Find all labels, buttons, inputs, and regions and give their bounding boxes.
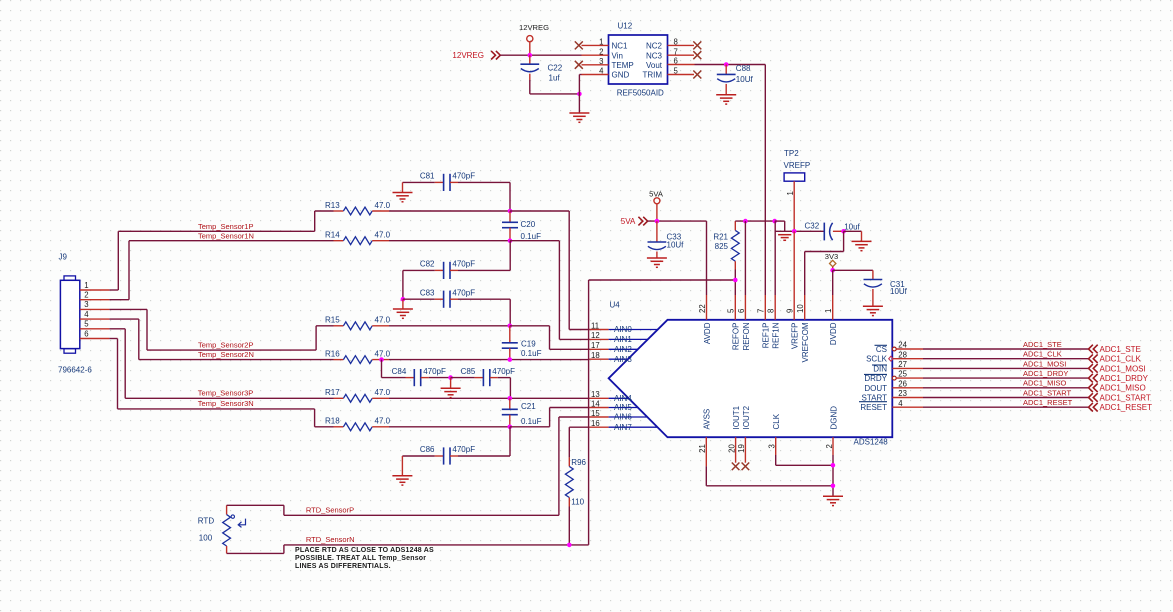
svg-text:C20: C20 — [521, 220, 536, 229]
junction at 12VREG rail / C22 — [528, 53, 533, 58]
svg-text:23: 23 — [898, 389, 907, 398]
svg-text:VREFCOM: VREFCOM — [801, 322, 810, 362]
junction R15/C83/C19 — [508, 324, 513, 329]
IC U12 REF5050AID — [609, 22, 668, 98]
resistor RTD 100 (RTD sensor) — [198, 505, 246, 553]
junction R14/C20/C82 — [508, 238, 513, 243]
port ADC1_STE (off-page connector, right) — [1089, 345, 1141, 354]
wire C86 left to ground — [401, 456, 403, 476]
net label RTD_SensorP — [306, 506, 354, 515]
wire C85 right down to R17 node — [509, 378, 511, 399]
svg-text:AIN6: AIN6 — [614, 413, 632, 422]
svg-text:12VREG: 12VREG — [452, 51, 484, 60]
wire Temp_Sensor3N jog down to R18 — [315, 409, 334, 427]
U4 pin 5 REFOP (top) — [727, 295, 741, 350]
J9 pin 3 — [80, 300, 110, 309]
no-connect X on pin 19 — [742, 463, 750, 471]
svg-text:VREFP: VREFP — [784, 161, 811, 170]
wire J9 pin6 to Temp_Sensor3N — [109, 339, 314, 409]
svg-text:R13: R13 — [325, 201, 340, 210]
svg-text:PLACE RTD AS CLOSE TO ADS1248: PLACE RTD AS CLOSE TO ADS1248 AS — [295, 547, 434, 554]
svg-text:1: 1 — [824, 309, 833, 313]
svg-text:C21: C21 — [521, 402, 536, 411]
wire net ADC1_MOSI — [923, 367, 1088, 369]
svg-text:10: 10 — [796, 304, 805, 313]
junction REFON tap — [743, 219, 748, 224]
port ADC1_CLK (off-page connector, right) — [1089, 354, 1142, 363]
svg-text:2: 2 — [84, 291, 88, 300]
svg-text:ADC1_STE: ADC1_STE — [1023, 340, 1062, 349]
wire CLK to DGND node — [776, 455, 833, 465]
wire J9 pin1 to Temp_Sensor1P — [109, 231, 314, 290]
ground (C31) — [863, 306, 883, 315]
svg-text:6: 6 — [84, 329, 88, 338]
svg-text:47.0: 47.0 — [375, 349, 391, 358]
wire REF rail R21-top to REF0N / REF1N — [735, 220, 774, 222]
wire VREFP pin column — [793, 231, 795, 295]
svg-text:3: 3 — [84, 300, 88, 309]
wire net ADC1_RESET — [923, 406, 1088, 408]
svg-text:ADC1_MOSI: ADC1_MOSI — [1100, 364, 1146, 373]
svg-text:AIN4: AIN4 — [614, 394, 632, 403]
svg-text:REFON: REFON — [742, 322, 751, 350]
svg-text:8: 8 — [767, 309, 776, 313]
svg-text:RTD_SensorP: RTD_SensorP — [306, 506, 354, 515]
svg-text:5: 5 — [84, 320, 89, 329]
svg-text:Vout: Vout — [646, 61, 663, 70]
junction C84/C85 ground node — [448, 375, 453, 380]
U4 pin 11 AIN0 (left) — [589, 321, 657, 334]
svg-text:AVDD: AVDD — [703, 322, 712, 344]
J9 pin 1 — [80, 281, 110, 290]
port ADC1_MOSI (off-page connector, right) — [1089, 364, 1146, 373]
net label Temp_Sensor1P — [198, 222, 253, 231]
junction CLK/DGND — [831, 463, 836, 468]
junction 5VA / C33 — [655, 219, 660, 224]
ground (REF rail) — [778, 235, 791, 241]
net label ADC1_CLK — [1023, 350, 1062, 359]
J9 pin 5 — [80, 320, 110, 329]
svg-text:14: 14 — [591, 399, 600, 408]
no-connect X on U12 pin 5 — [693, 71, 701, 79]
svg-text:0.1uF: 0.1uF — [521, 417, 542, 426]
wire J9 pin4 to Temp_Sensor2N — [109, 319, 333, 360]
U12 pin 1 NC1 — [582, 38, 629, 51]
svg-text:470pF: 470pF — [452, 260, 475, 269]
wire C84 drop — [382, 360, 406, 378]
U4 pin 1 DVDD (top) — [824, 295, 838, 345]
U12 pin 6 Vout — [646, 57, 695, 70]
svg-text:10uf: 10uf — [844, 223, 860, 232]
wire C20 node down to C82 — [509, 241, 511, 271]
net label ADC1_MISO — [1023, 379, 1067, 388]
net label ADC1_MOSI — [1023, 359, 1066, 368]
resistor R15 47.0 — [325, 316, 391, 330]
svg-text:5VA: 5VA — [649, 189, 664, 198]
J9 pin 6 — [80, 329, 110, 338]
junction R13/C81/C20 — [508, 209, 513, 214]
U4 pin 13 AIN4 (left) — [589, 390, 632, 403]
svg-text:C85: C85 — [461, 367, 476, 376]
net label Temp_Sensor3N — [198, 399, 254, 408]
no-connect X on U12 pin 1 — [575, 41, 583, 49]
svg-text:R16: R16 — [325, 349, 340, 358]
svg-text:C81: C81 — [420, 172, 435, 181]
wire R13 node jog to AIN0 — [510, 211, 589, 330]
port 5VA (off-page connector) — [621, 217, 648, 226]
capacitor C88 10Uf — [717, 64, 754, 95]
svg-text:ADC1_STE: ADC1_STE — [1100, 345, 1141, 354]
J9 pin 4 — [80, 310, 110, 319]
svg-text:LINES AS DIFFERENTIALS.: LINES AS DIFFERENTIALS. — [295, 563, 391, 570]
svg-text:TP2: TP2 — [784, 149, 799, 158]
junction C84 tap on Temp_Sensor2N — [379, 357, 384, 362]
svg-text:5VA: 5VA — [621, 217, 636, 226]
capacitor C86 470pF — [402, 445, 510, 464]
svg-text:Vin: Vin — [612, 51, 623, 60]
ground (C88) — [716, 95, 736, 104]
port ADC1_DRDY (off-page connector, right) — [1089, 374, 1149, 383]
svg-text:U4: U4 — [610, 301, 621, 310]
no-connect X on U12 pin 3 — [575, 61, 583, 69]
ground (DGND) — [823, 496, 843, 505]
svg-text:100: 100 — [199, 533, 213, 542]
svg-text:825: 825 — [715, 242, 729, 251]
wire Temp_Sensor2P jog up to R15 — [316, 326, 333, 350]
ground (C82/C83) — [393, 299, 413, 318]
svg-text:16: 16 — [591, 419, 600, 428]
junction R18/C21/C86 — [508, 425, 513, 430]
ground (U12 / C22) — [569, 113, 589, 122]
svg-text:Temp_Sensor1N: Temp_Sensor1N — [198, 231, 254, 240]
U12 pin 8 NC2 — [646, 38, 694, 51]
svg-text:C19: C19 — [521, 339, 536, 348]
svg-text:R21: R21 — [713, 233, 728, 242]
svg-text:110: 110 — [571, 497, 584, 506]
U4 pin 28 SCLK (right) — [866, 350, 923, 363]
resistor R96 110 — [565, 457, 586, 545]
wire AVSS to DGND node — [706, 466, 833, 486]
capacitor C21 0.1uF — [502, 398, 542, 427]
svg-text:15: 15 — [591, 409, 600, 418]
wire REF ground staple — [775, 221, 785, 231]
svg-text:ADC1_RESET: ADC1_RESET — [1023, 398, 1073, 407]
svg-text:6: 6 — [674, 57, 678, 66]
svg-text:18: 18 — [591, 351, 600, 360]
wire R18 out jog to AIN5 — [510, 408, 590, 427]
svg-text:3: 3 — [599, 57, 603, 66]
svg-text:796642-6: 796642-6 — [58, 366, 92, 375]
U4 pin 2 DGND (bottom) — [825, 406, 839, 455]
U4 pin 27 DIN (right) — [872, 360, 923, 373]
svg-text:SCLK: SCLK — [866, 355, 888, 364]
U4 pin 22 AVDD (top) — [698, 295, 712, 344]
svg-text:470pF: 470pF — [452, 288, 475, 297]
svg-text:AIN0: AIN0 — [614, 325, 632, 334]
junction R16/C19 — [508, 357, 513, 362]
svg-text:ADC1_MISO: ADC1_MISO — [1023, 379, 1067, 388]
wire J9 pin5 to Temp_Sensor3P — [109, 329, 333, 399]
junction R17/C85/C21 — [508, 396, 513, 401]
svg-text:R17: R17 — [325, 388, 340, 397]
wire Vout to REF1P column — [695, 65, 766, 296]
svg-text:1uf: 1uf — [549, 73, 561, 82]
svg-text:AVSS: AVSS — [703, 409, 712, 430]
J9 pin 2 — [80, 291, 110, 300]
svg-text:1: 1 — [599, 38, 603, 47]
no-connect X on U12 pin 7 — [693, 51, 701, 59]
svg-text:11: 11 — [591, 321, 599, 330]
capacitor C84 470pF — [392, 367, 451, 386]
net label Temp_Sensor1N — [198, 231, 254, 240]
testpoint TP2 VREFP — [784, 149, 811, 231]
svg-text:470pF: 470pF — [423, 367, 446, 376]
port ADC1_START (off-page connector, right) — [1089, 393, 1151, 402]
svg-text:C83: C83 — [420, 288, 435, 297]
svg-text:VREFP: VREFP — [791, 323, 800, 350]
net label Temp_Sensor2N — [198, 350, 254, 359]
wire R16 out to AIN3 — [389, 359, 589, 361]
svg-text:DOUT: DOUT — [864, 384, 887, 393]
port ADC1_RESET (off-page connector, right) — [1089, 403, 1153, 412]
junction Vout / C88 — [724, 62, 729, 67]
wire VREF common rail — [775, 230, 824, 232]
svg-text:ADC1_MOSI: ADC1_MOSI — [1023, 359, 1066, 368]
svg-text:12: 12 — [591, 331, 600, 340]
wire J9 pin3 to Temp_Sensor2P — [109, 309, 316, 350]
junction VREFP pin 9 / TP2 — [792, 229, 797, 234]
wire RTD_SensorN riser to REFOP node — [589, 280, 736, 545]
wire C83 right up-down to R15 node — [509, 299, 511, 326]
note text line 1 — [295, 547, 434, 554]
svg-text:NC1: NC1 — [612, 42, 629, 51]
svg-text:10Uf: 10Uf — [736, 75, 754, 84]
wire U12 pin4 to ground — [579, 75, 581, 113]
svg-text:5: 5 — [674, 67, 679, 76]
svg-text:U12: U12 — [618, 22, 633, 31]
svg-text:NC3: NC3 — [646, 51, 663, 60]
wire C81 right down to R13 node — [509, 182, 511, 211]
svg-text:NC2: NC2 — [646, 42, 663, 51]
U12 pin 2 Vin — [582, 47, 623, 60]
wire R13 out to node — [389, 210, 510, 212]
svg-text:3V3: 3V3 — [825, 252, 839, 261]
svg-text:ADC1_START: ADC1_START — [1023, 388, 1071, 397]
no-connect X on U12 pin 8 — [693, 41, 701, 49]
ground (C86) — [392, 476, 412, 485]
U4 pin 3 CLK (bottom) — [768, 413, 782, 455]
wire R14 node jog to AIN1 — [510, 241, 589, 340]
svg-text:CLK: CLK — [772, 413, 781, 429]
svg-text:J9: J9 — [59, 253, 68, 262]
svg-text:5: 5 — [727, 308, 736, 313]
svg-text:7: 7 — [674, 47, 678, 56]
U12 pin 7 NC3 — [646, 47, 694, 60]
svg-text:DVDD: DVDD — [829, 322, 838, 345]
capacitor C83 470pF — [403, 288, 510, 307]
junction C32 right node — [841, 229, 846, 234]
svg-text:470pF: 470pF — [452, 172, 475, 181]
svg-text:CS: CS — [876, 345, 887, 354]
svg-text:19: 19 — [737, 444, 746, 453]
power symbol 3V3 — [825, 252, 839, 270]
power symbol 12VREG — [519, 23, 549, 55]
wire AIN7 to R96 — [569, 427, 589, 457]
junction R96 / RTD_SensorN — [567, 543, 572, 548]
U4 pin 14 AIN5 (left) — [589, 399, 638, 412]
svg-text:R14: R14 — [325, 231, 340, 240]
svg-text:RTD_SensorN: RTD_SensorN — [306, 535, 355, 544]
svg-text:10Uf: 10Uf — [667, 241, 685, 250]
U4 pin 18 AIN3 (left) — [589, 351, 632, 364]
svg-text:2: 2 — [599, 47, 603, 56]
svg-text:ADC1_CLK: ADC1_CLK — [1023, 350, 1062, 359]
svg-text:22: 22 — [698, 304, 707, 313]
U4 pin 12 AIN1 (left) — [589, 331, 648, 344]
resistor R18 47.0 — [325, 417, 391, 431]
junction C22 / GND wire — [577, 92, 582, 97]
svg-text:ADS1248: ADS1248 — [854, 438, 889, 447]
svg-text:ADC1_CLK: ADC1_CLK — [1100, 355, 1142, 364]
wire J9 pin2 to Temp_Sensor1N — [109, 241, 333, 300]
svg-text:Temp_Sensor2P: Temp_Sensor2P — [198, 340, 253, 349]
IC U4 ADS1248 body — [609, 301, 893, 447]
wire C32 to ground — [844, 231, 862, 241]
svg-text:C86: C86 — [420, 445, 435, 454]
svg-text:AIN1: AIN1 — [614, 335, 632, 344]
capacitor C33 10Uf — [648, 221, 685, 258]
svg-text:47.0: 47.0 — [375, 316, 391, 325]
svg-text:6: 6 — [737, 309, 746, 313]
U4 pin 7 REF1P (top) — [757, 295, 771, 348]
capacitor C19 0.1uF — [502, 326, 542, 360]
U4 pin 21 AVSS (bottom) — [698, 409, 712, 466]
svg-text:ADC1_MISO: ADC1_MISO — [1100, 384, 1146, 393]
svg-text:DIN: DIN — [873, 364, 887, 373]
wire C81 left to ground — [402, 182, 404, 192]
svg-text:IOUT2: IOUT2 — [742, 405, 751, 429]
port ADC1_MISO (off-page connector, right) — [1089, 384, 1146, 393]
U4 pin 25 DRDY (right) — [864, 370, 923, 383]
wire net ADC1_MISO — [923, 387, 1088, 389]
wire net ADC1_START — [923, 397, 1088, 399]
power symbol 5VA — [649, 189, 664, 221]
wire 12VREG rail — [500, 54, 581, 56]
capacitor C81 470pF — [403, 172, 511, 191]
net label ADC1_STE — [1023, 340, 1062, 349]
U4 pin 17 AIN2 (left) — [589, 341, 638, 354]
U4 pin 6 REFON (top) — [737, 295, 751, 351]
wire 3V3 node to C31 — [833, 270, 873, 279]
svg-text:AIN3: AIN3 — [614, 355, 632, 364]
svg-text:Temp_Sensor1P: Temp_Sensor1P — [198, 222, 253, 231]
net label ADC1_DRDY — [1023, 369, 1068, 378]
svg-text:13: 13 — [591, 390, 600, 399]
resistor R17 47.0 — [325, 388, 391, 402]
svg-text:TEMP: TEMP — [612, 61, 634, 70]
svg-text:470pF: 470pF — [492, 367, 515, 376]
U4 pin 4 RESET (right) — [859, 399, 923, 412]
U4 pin 26 DOUT (right) — [864, 379, 923, 392]
wire R15 out jog to AIN2 — [510, 326, 590, 350]
wire net ADC1_STE — [923, 348, 1088, 350]
svg-text:IOUT1: IOUT1 — [732, 405, 741, 429]
wire R17 out to AIN4 — [389, 397, 589, 399]
no-connect X on pin 20 — [732, 463, 740, 471]
svg-text:START: START — [862, 394, 888, 403]
U4 pin 24 CS (right) — [875, 341, 924, 354]
svg-text:3: 3 — [768, 444, 777, 448]
wire DGND column to ground — [832, 455, 834, 496]
wire C82 left to ground node — [402, 270, 404, 299]
wire Temp_Sensor1P jog up to R13 — [315, 211, 334, 231]
svg-text:DRDY: DRDY — [864, 374, 887, 383]
svg-text:47.0: 47.0 — [375, 417, 391, 426]
svg-text:Temp_Sensor3P: Temp_Sensor3P — [198, 389, 253, 398]
wire DVDD pin column — [832, 270, 834, 295]
svg-text:21: 21 — [698, 444, 707, 453]
U4 pin 10 VREFCOM (top) — [796, 295, 810, 363]
svg-text:1: 1 — [84, 281, 88, 290]
wire RTD bottom to RTD_SensorN — [227, 545, 589, 554]
U4 pin 23 START (right) — [862, 389, 923, 402]
resistor R21 825 (REFOP series) — [713, 221, 739, 295]
note text line 3 — [295, 563, 391, 570]
svg-text:0.1uF: 0.1uF — [521, 232, 542, 241]
svg-text:ADC1_DRDY: ADC1_DRDY — [1023, 369, 1068, 378]
svg-text:AIN5: AIN5 — [614, 403, 632, 412]
svg-text:C84: C84 — [392, 367, 407, 376]
svg-text:GND: GND — [612, 71, 630, 80]
svg-text:ADC1_RESET: ADC1_RESET — [1100, 403, 1153, 412]
wire REF1N pin column — [774, 221, 776, 295]
svg-text:ADC1_START: ADC1_START — [1100, 393, 1151, 402]
capacitor C22 1uf — [520, 55, 562, 82]
svg-text:0.1uF: 0.1uF — [521, 349, 542, 358]
svg-text:TRIM: TRIM — [642, 71, 662, 80]
svg-text:12VREG: 12VREG — [519, 23, 549, 32]
junction RTD_SensorN / REFOP column — [733, 278, 738, 283]
svg-text:C82: C82 — [420, 260, 435, 269]
svg-text:28: 28 — [898, 350, 907, 359]
wire REFON pin column — [744, 221, 746, 295]
svg-text:C88: C88 — [736, 64, 751, 73]
svg-text:Temp_Sensor3N: Temp_Sensor3N — [198, 399, 254, 408]
wire R18 out to node — [389, 426, 510, 428]
wire C22 bottom to U12 GND net — [530, 80, 580, 94]
wire net ADC1_CLK — [923, 358, 1088, 360]
note text line 2 — [295, 555, 426, 562]
svg-text:47.0: 47.0 — [375, 201, 391, 210]
svg-text:27: 27 — [898, 360, 907, 369]
net label ADC1_RESET — [1023, 398, 1073, 407]
svg-text:REF5050AID: REF5050AID — [617, 88, 664, 97]
svg-text:1: 1 — [786, 191, 795, 195]
wire R14 out to node — [389, 240, 510, 242]
capacitor C85 470pF — [451, 367, 515, 386]
svg-text:7: 7 — [757, 309, 766, 313]
svg-text:47.0: 47.0 — [375, 231, 391, 240]
svg-text:REFOP: REFOP — [732, 323, 741, 351]
U4 pin 16 AIN7 (left) — [589, 419, 657, 432]
svg-text:R18: R18 — [325, 417, 340, 426]
U12 pin 5 TRIM — [642, 67, 694, 80]
junction 3V3 / DVDD / C31 — [830, 268, 835, 273]
svg-text:4: 4 — [84, 310, 89, 319]
svg-text:25: 25 — [898, 370, 907, 379]
svg-text:10Uf: 10Uf — [890, 287, 908, 296]
svg-text:REF1P: REF1P — [762, 323, 771, 349]
